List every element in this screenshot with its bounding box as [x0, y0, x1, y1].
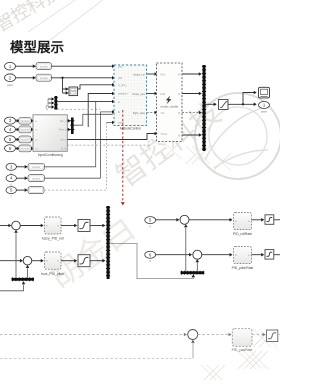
wire	[0, 281, 25, 291]
sum S3	[180, 215, 189, 224]
svg-text:rc_pos_t: rc_pos_t	[118, 84, 127, 87]
wire	[61, 259, 77, 263]
wire	[67, 140, 149, 145]
wire	[156, 218, 180, 222]
wire	[17, 176, 28, 180]
mux M3	[202, 65, 206, 151]
scope block	[259, 87, 270, 98]
wire	[274, 219, 280, 221]
svg-text:fuzz_PID_pitch: fuzz_PID_pitch	[41, 272, 64, 276]
wire	[107, 121, 115, 189]
subsystem InputConditioning	[33, 115, 67, 157]
inport In8	[6, 175, 16, 187]
wire	[17, 165, 28, 169]
annotation arrow	[121, 110, 125, 206]
PID rollRate block	[233, 213, 252, 236]
svg-text:TcA: TcA	[161, 112, 165, 115]
wire	[16, 119, 20, 123]
svg-text:cmd: cmd	[118, 66, 123, 68]
saturation block	[265, 250, 274, 260]
svg-text:double: double	[40, 64, 49, 68]
wire	[147, 72, 158, 76]
wire	[182, 133, 202, 137]
saturation block	[267, 330, 278, 342]
wire	[67, 119, 71, 123]
convert block D1	[36, 63, 52, 70]
fuzzy PID pitch block	[41, 252, 64, 276]
wire	[26, 265, 30, 278]
subsystem U2	[69, 87, 78, 96]
wire	[74, 114, 113, 125]
outport Out1	[259, 102, 270, 114]
wire	[20, 224, 43, 228]
wire	[88, 92, 115, 127]
wire	[228, 91, 257, 106]
svg-text:mode: mode	[118, 123, 124, 125]
wire	[45, 166, 96, 168]
wire	[78, 83, 115, 89]
wire	[147, 92, 158, 96]
wire	[44, 189, 107, 190]
wire	[61, 224, 77, 228]
saturation block	[78, 255, 90, 267]
svg-text:Thrust: Thrust	[161, 133, 168, 136]
inport In5	[5, 136, 16, 143]
svg-text:torque_cm: torque_cm	[133, 74, 145, 77]
wire	[16, 128, 20, 132]
wire	[110, 244, 196, 279]
wire	[31, 128, 34, 132]
convert block D8	[28, 175, 45, 182]
wire	[0, 224, 11, 228]
controller block U1	[114, 65, 147, 130]
wire	[189, 218, 233, 222]
svg-text:Pwm_f: Pwm_f	[59, 129, 67, 132]
motor model block U3	[157, 63, 183, 142]
svg-text:pilot: pilot	[7, 83, 13, 87]
svg-text:fuzzy_PID_roll: fuzzy_PID_roll	[42, 237, 64, 241]
wire	[90, 224, 105, 228]
demux M6	[181, 271, 205, 275]
convert block D4	[19, 126, 31, 133]
wire	[16, 147, 20, 151]
wire	[182, 92, 202, 96]
wire	[57, 108, 100, 110]
wire	[31, 119, 34, 123]
svg-text:double: double	[21, 138, 30, 142]
convert block D3	[19, 117, 31, 124]
wire	[31, 138, 34, 142]
svg-text:double: double	[21, 119, 30, 123]
svg-text:flight_state: flight_state	[133, 112, 146, 115]
svg-text:double: double	[21, 128, 30, 132]
mux M2	[70, 118, 74, 135]
svg-text:pwm: pwm	[261, 110, 268, 114]
mux M1	[46, 96, 58, 110]
inport In1	[5, 62, 16, 75]
wire	[252, 218, 265, 222]
sum S5	[188, 330, 198, 340]
wire	[182, 111, 202, 115]
inport In9	[6, 187, 16, 199]
svg-text:torque_yaw: torque_yaw	[132, 93, 145, 96]
convert block D6	[19, 145, 31, 152]
svg-text:double: double	[32, 176, 41, 180]
wire	[278, 334, 280, 336]
wire	[16, 138, 20, 142]
sum S1	[12, 221, 21, 230]
wire	[67, 128, 71, 132]
title 模型展示	[10, 39, 64, 55]
convert block D9	[28, 187, 44, 194]
wire	[198, 333, 232, 337]
svg-text:RcA: RcA	[161, 73, 166, 76]
wire	[0, 259, 23, 263]
wire	[0, 340, 195, 359]
inport In2	[5, 74, 16, 87]
wire	[32, 259, 44, 263]
inport In7	[6, 163, 16, 175]
PID yawRate block	[232, 329, 253, 352]
wire	[196, 259, 200, 271]
wire	[67, 132, 157, 140]
wire	[45, 177, 101, 179]
PID pitchRate block	[232, 247, 254, 270]
svg-text:double: double	[21, 147, 30, 151]
sum S2	[23, 256, 32, 265]
convert block D5	[19, 136, 31, 143]
wire	[17, 188, 28, 192]
svg-text:double: double	[32, 165, 41, 169]
svg-text:Rst_y: Rst_y	[60, 120, 67, 123]
wire	[184, 224, 188, 271]
wire	[52, 64, 116, 68]
svg-text:pilot: pilot	[118, 77, 123, 80]
svg-text:ctrl_s: ctrl_s	[60, 139, 67, 142]
wire	[274, 254, 280, 256]
wire	[101, 110, 116, 178]
wire	[252, 253, 265, 257]
wire	[52, 76, 116, 80]
convert block D7	[28, 163, 45, 170]
wire	[95, 101, 97, 167]
wire	[14, 230, 18, 278]
inport In4	[5, 126, 16, 133]
wire	[252, 333, 266, 337]
svg-text:InputConditioning: InputConditioning	[38, 153, 63, 157]
wire	[63, 78, 69, 95]
inport In11	[145, 251, 156, 263]
wire	[156, 253, 192, 257]
rate limiter block	[219, 100, 229, 110]
wire	[147, 111, 158, 115]
wire	[16, 64, 36, 68]
wire	[57, 100, 115, 104]
svg-text:PID_pitchRate: PID_pitchRate	[232, 266, 254, 270]
wire	[206, 103, 217, 107]
svg-text:PID_yawRate: PID_yawRate	[232, 348, 253, 352]
inport In3	[5, 117, 16, 124]
svg-text:RcB: RcB	[161, 93, 166, 96]
svg-text:PID_rollRate: PID_rollRate	[233, 232, 252, 236]
convert block D2	[36, 74, 52, 81]
sum S4	[193, 250, 202, 259]
svg-text:double: double	[40, 76, 49, 80]
wire	[202, 253, 233, 257]
svg-text:模型展示: 模型展示	[10, 39, 64, 55]
fuzzy PID roll block	[42, 217, 64, 241]
wire	[31, 147, 34, 151]
wire	[182, 72, 202, 76]
wire	[16, 76, 36, 80]
svg-text:To_w: To_w	[60, 148, 66, 151]
wire	[90, 259, 105, 263]
mux M4	[106, 206, 110, 279]
wire	[0, 333, 187, 337]
demux M5	[12, 277, 35, 281]
svg-text:setpoint_t: setpoint_t	[118, 93, 128, 96]
svg-text:motor_model: motor_model	[161, 105, 179, 109]
saturation block	[265, 215, 274, 225]
inport In6	[5, 145, 16, 152]
saturation block	[78, 220, 90, 232]
inport In10	[145, 217, 156, 229]
